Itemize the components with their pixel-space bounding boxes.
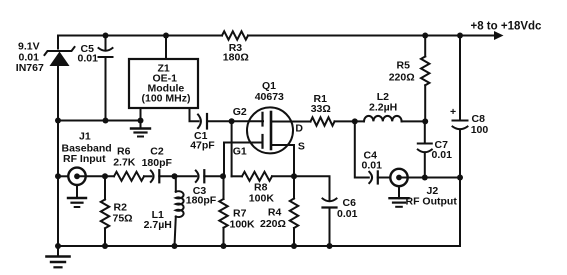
resistor R7 [219, 176, 227, 246]
svg-text:75Ω: 75Ω [113, 213, 133, 225]
wire left rail lower [57, 66, 59, 246]
wire C4 branch drop [355, 121, 369, 177]
wire S node to C6 [294, 176, 330, 199]
svg-text:100: 100 [471, 124, 489, 136]
node S/R8/C6 [291, 173, 297, 179]
svg-text:D: D [295, 122, 303, 134]
wire drain lead [271, 121, 311, 123]
module Z1 box [129, 59, 198, 108]
wire left rail upper [57, 36, 59, 49]
capacitor C6 [323, 199, 337, 247]
capacitor C1 [198, 114, 263, 129]
wire G1 lead [224, 143, 263, 177]
transistor Q1 40673 [247, 107, 293, 153]
capacitor C5 [99, 36, 113, 121]
wire Z1 top pin [165, 36, 167, 60]
wire bottom rail [58, 245, 460, 247]
ground below J2 [390, 186, 409, 207]
node R7 bottom [221, 243, 227, 249]
svg-text:0.01: 0.01 [78, 53, 99, 65]
svg-text:2.7µH: 2.7µH [144, 219, 172, 231]
wire J2 to C7 node [402, 177, 460, 179]
node C8 top [457, 33, 463, 39]
svg-text:G1: G1 [233, 146, 247, 158]
capacitor C2 [151, 170, 175, 182]
node R5 top [422, 33, 428, 39]
svg-text:180pF: 180pF [142, 157, 173, 169]
node Z1 top pin [163, 33, 169, 39]
svg-text:R5: R5 [397, 60, 411, 72]
wire L2 to R5 node [402, 120, 426, 122]
node bottom-left corner [55, 243, 61, 249]
node junction left rail / ground bus [55, 118, 61, 124]
node C5 bottom [103, 118, 109, 124]
svg-text:J1: J1 [79, 131, 91, 143]
capacitor C8 [453, 36, 468, 178]
wire R6 to C2 [144, 175, 151, 177]
node left rail / input line [55, 173, 61, 179]
node L2/R5/C7 [422, 118, 428, 124]
node C5 top [103, 33, 109, 39]
svg-text:220Ω: 220Ω [389, 72, 415, 84]
ground below J1 [68, 185, 86, 207]
svg-text:0.01: 0.01 [432, 149, 453, 161]
node Z1 ground [138, 118, 144, 124]
ground below Z1 [131, 121, 150, 137]
resistor R5 [421, 36, 429, 122]
svg-text:2.7K: 2.7K [113, 157, 136, 169]
svg-text:+: + [450, 106, 456, 118]
wire top rail left segment [58, 35, 222, 37]
wire top rail right segment [248, 35, 495, 37]
capacitor C4 [369, 171, 390, 183]
supply arrow head [494, 31, 504, 40]
node C6 bottom [327, 243, 333, 249]
connector J1 [68, 168, 85, 185]
resistor R4 [290, 176, 298, 246]
node L1 bottom [172, 243, 178, 249]
node G1/C3/R7/R8 [220, 173, 226, 179]
svg-text:RF Input: RF Input [63, 153, 106, 165]
wire right drop to bottom rail [459, 178, 461, 247]
inductor L2 [364, 116, 402, 122]
wire J1 to R6 [80, 175, 114, 177]
inductor L1 [175, 176, 184, 246]
svg-text:40673: 40673 [255, 91, 284, 103]
svg-text:+8 to +18Vdc: +8 to +18Vdc [471, 21, 543, 33]
resistor R1 [311, 117, 335, 125]
capacitor C3 [196, 170, 223, 182]
svg-text:(100 MHz): (100 MHz) [142, 93, 191, 105]
svg-text:Q1: Q1 [262, 80, 276, 92]
svg-text:0.01: 0.01 [362, 160, 383, 172]
wire G2 drop [231, 121, 233, 176]
node C2/L1/C3 [172, 173, 178, 179]
connector J2 [390, 169, 407, 186]
svg-text:R4: R4 [268, 207, 282, 219]
wire source lead [271, 145, 294, 176]
wire node to C3 [175, 175, 197, 177]
resistor R8 [232, 172, 294, 181]
capacitor C7 [418, 121, 432, 177]
node drain/C4 [352, 118, 358, 124]
svg-text:180pF: 180pF [186, 194, 217, 206]
svg-text:G2: G2 [233, 106, 247, 118]
svg-text:220Ω: 220Ω [260, 218, 286, 230]
svg-text:33Ω: 33Ω [311, 103, 331, 115]
svg-text:RF Output: RF Output [406, 196, 458, 208]
svg-text:2.2µH: 2.2µH [369, 101, 397, 113]
svg-text:S: S [298, 141, 305, 153]
node C7 bottom [422, 175, 428, 181]
svg-text:47pF: 47pF [190, 140, 215, 152]
wire Z1 bottom-left pin [140, 108, 142, 121]
svg-text:C2: C2 [150, 146, 164, 158]
node R4 bottom [291, 243, 297, 249]
resistor R6 [114, 172, 144, 181]
wire R1 to L2 node [335, 120, 365, 122]
wire input line J1 segment [58, 175, 68, 177]
ground bottom-left [47, 246, 70, 267]
svg-text:0.01: 0.01 [337, 208, 358, 220]
svg-text:100K: 100K [249, 192, 275, 204]
wire Z1 bottom-right pin [190, 108, 199, 121]
node R2 top [102, 173, 108, 179]
node C8 output line [457, 175, 463, 181]
zener diode D1 IN767 [45, 47, 75, 66]
svg-text:IN767: IN767 [16, 62, 44, 74]
node R2 bottom [102, 243, 108, 249]
node G2 [229, 118, 235, 124]
resistor R3 [222, 31, 248, 39]
svg-text:180Ω: 180Ω [223, 52, 249, 64]
svg-text:100K: 100K [230, 219, 256, 231]
resistor R2 [101, 176, 109, 246]
wire ground bus y120 [58, 120, 141, 122]
